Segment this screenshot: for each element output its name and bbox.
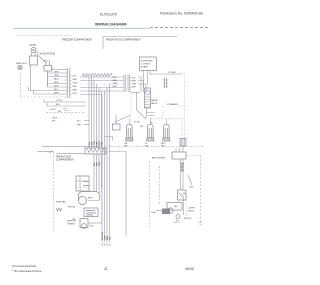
wire nut: [18, 65, 22, 69]
svg-text:COND: COND: [151, 212, 157, 214]
svg-text:ELFI313TS: ELFI313TS: [100, 13, 118, 17]
svg-text:LT BLU: LT BLU: [56, 100, 63, 102]
svg-text:THERMO: THERMO: [67, 224, 76, 226]
bundle A verticals: [89, 77, 102, 148]
svg-text:VALVE: VALVE: [151, 102, 158, 105]
start circle: [168, 208, 173, 213]
dotted drop right: [184, 74, 186, 140]
svg-text:BLU: BLU: [56, 104, 61, 106]
svg-text:BLK: BLK: [73, 76, 78, 78]
diagonal lead to plug: [37, 54, 46, 63]
evap fan motor capsule: [79, 192, 100, 201]
wire RED dashed: [48, 79, 66, 81]
wires below block: [94, 154, 102, 192]
svg-text:FRESH FOOD COMPARTMENT: FRESH FOOD COMPARTMENT: [106, 39, 141, 42]
dashed divider right: [150, 118, 183, 120]
svg-text:WHT: WHT: [54, 71, 59, 73]
svg-text:ESSOR: ESSOR: [188, 211, 195, 213]
svg-text:* Non-Illustrated Parts: * Non-Illustrated Parts: [12, 269, 42, 273]
fresh food dashed edge: [53, 152, 55, 232]
defrost thermostat: [80, 219, 88, 228]
svg-text:BOARD: BOARD: [141, 66, 149, 69]
svg-text:SW: SW: [140, 126, 143, 128]
relay dark blob: [162, 209, 170, 215]
svg-text:WATER: WATER: [151, 99, 159, 102]
connector J2 bars: [124, 75, 129, 93]
svg-text:LT GRN: LT GRN: [168, 72, 176, 74]
dispenser control board box: [140, 57, 157, 71]
svg-text:ORN: ORN: [113, 83, 118, 85]
capacitor diagonal lead: [188, 175, 192, 185]
connector J1 bars: [67, 68, 70, 98]
bundle rotated labels: [102, 231, 112, 240]
wire row 1: [52, 69, 65, 71]
wire below box 1: [44, 99, 86, 102]
svg-text:ORN: ORN: [132, 83, 137, 85]
svg-text:BLK: BLK: [90, 226, 94, 228]
bundle B verticals: [102, 84, 110, 242]
top section boundary dashed (freezer): [17, 35, 72, 37]
fan sensor mark: [56, 208, 62, 211]
bundle mid cluster labels: [89, 140, 104, 145]
svg-text:ORN: ORN: [99, 161, 101, 166]
svg-text:GRY: GRY: [73, 93, 78, 95]
svg-text:EVAP FAN: EVAP FAN: [56, 201, 66, 204]
right connector block: [180, 139, 186, 147]
svg-text:AIR DIFFUSER: AIR DIFFUSER: [152, 156, 166, 159]
overload leads: [181, 159, 184, 190]
svg-text:BLK: BLK: [54, 89, 59, 91]
svg-text:BLK: BLK: [113, 77, 118, 79]
wire long BLK: [29, 90, 66, 92]
wires to water valve: [138, 77, 146, 92]
wire GRY: [48, 86, 66, 88]
svg-text:* = wires of provider: * = wires of provider: [36, 151, 54, 153]
wire from board to right: [157, 73, 184, 75]
svg-text:WHT: WHT: [132, 80, 137, 82]
terminal block connector: [85, 148, 106, 154]
svg-text:WHT: WHT: [73, 79, 78, 81]
dash-dot mid left: [46, 112, 86, 114]
dotted drop: [101, 165, 103, 225]
dash-dot divider: [100, 146, 203, 148]
wire into block left: [56, 153, 85, 155]
svg-text:Publication No. 5995A09-68: Publication No. 5995A09-68: [160, 12, 203, 16]
harness connector right: [165, 78, 167, 88]
svg-text:11: 11: [104, 267, 108, 271]
fan motor circle: [79, 197, 87, 205]
long note rule: [42, 146, 100, 148]
svg-text:COMPR: COMPR: [188, 208, 195, 210]
svg-text:# LIGHT ASM: # LIGHT ASM: [40, 53, 55, 56]
svg-text:MOTOR: MOTOR: [68, 207, 76, 209]
svg-text:DISPENSER: DISPENSER: [141, 61, 153, 63]
svg-text:WHT: WHT: [113, 80, 118, 82]
wire GRN: [34, 93, 66, 95]
branch wire right of bundle: [102, 137, 126, 237]
dashed verticals right section: [149, 161, 151, 228]
svg-text:FREEZER COMPARTMENT: FREEZER COMPARTMENT: [62, 39, 93, 42]
svg-text:RED: RED: [73, 86, 78, 88]
valve lower marks: [147, 108, 155, 118]
svg-text:RED: RED: [113, 86, 118, 88]
header rule: [13, 27, 150, 29]
harness wires to second connector: [80, 76, 124, 78]
fresh food section corner bracket: [103, 37, 177, 50]
damper control box: [76, 176, 89, 191]
coiled cord zigzag: [82, 74, 110, 77]
water valve coil: [145, 88, 151, 108]
right branch wire: [186, 156, 201, 223]
connector pins: [65, 70, 71, 95]
svg-text:GRY: GRY: [54, 85, 59, 87]
svg-text:DOOR: DOOR: [50, 109, 56, 111]
svg-text:LIGHT: LIGHT: [52, 118, 58, 120]
heater lamp 1: [126, 124, 133, 141]
svg-text:ICEMAKER: ICEMAKER: [167, 103, 178, 106]
svg-text:ORN: ORN: [54, 75, 59, 77]
right relay box: [172, 152, 186, 159]
aux box: [113, 124, 121, 130]
svg-text:RUN: RUN: [88, 198, 93, 200]
svg-text:RED: RED: [54, 78, 59, 80]
lamp lead down: [29, 65, 31, 91]
compressor leads: [183, 196, 185, 215]
svg-text:DEFROST: DEFROST: [67, 221, 77, 223]
wire below box 2: [47, 103, 86, 107]
svg-text:YEL: YEL: [109, 236, 111, 240]
svg-text:WIRING DIAGRAM: WIRING DIAGRAM: [95, 23, 127, 27]
svg-text:FRESH FOOD: FRESH FOOD: [56, 156, 71, 158]
bundle end ticks: [101, 243, 111, 246]
fan leads: [88, 191, 99, 201]
svg-text:CONTROL: CONTROL: [141, 64, 152, 66]
freezer lamp socket: [31, 47, 36, 52]
svg-text:WIRE NUT: WIRE NUT: [16, 63, 27, 65]
run capacitor: [178, 190, 187, 200]
wire blob labels: [94, 161, 101, 166]
heater lamp 2: [147, 124, 154, 141]
svg-text:RED: RED: [132, 86, 137, 88]
condenser fan box: [167, 203, 182, 211]
svg-text:COMPARTMENT: COMPARTMENT: [56, 159, 74, 162]
wire WHT: [48, 72, 66, 74]
svg-text:# Functional Parts: # Functional Parts: [12, 264, 37, 268]
svg-text:LIGHT: LIGHT: [29, 44, 37, 47]
svg-text:DOOR: DOOR: [134, 122, 140, 124]
svg-text:08/05: 08/05: [185, 267, 194, 271]
svg-text:BRN: BRN: [54, 82, 59, 84]
wire ORN: [48, 76, 66, 78]
trunk from plug: [47, 71, 49, 87]
svg-text:BRN: BRN: [73, 90, 78, 92]
lamp socket body: [30, 56, 38, 65]
compressor dashes: [186, 203, 188, 219]
svg-text:ORN: ORN: [73, 83, 78, 85]
dashed left edge of freezer box: [20, 72, 22, 96]
svg-text:BLK: BLK: [132, 77, 137, 79]
dotted vertical center: [130, 94, 132, 115]
svg-text:BLK-WHT: BLK-WHT: [184, 218, 192, 220]
dashed bottom edge of freezer box: [20, 96, 66, 98]
diagonal into lower box: [115, 93, 146, 123]
defrost timer box: [84, 208, 98, 217]
wire BRN: [48, 83, 66, 85]
overload hatched: [180, 162, 184, 172]
svg-text:GRN: GRN: [54, 92, 59, 94]
heater lamp 3: [163, 124, 170, 141]
svg-text:SW *: SW *: [52, 121, 57, 123]
